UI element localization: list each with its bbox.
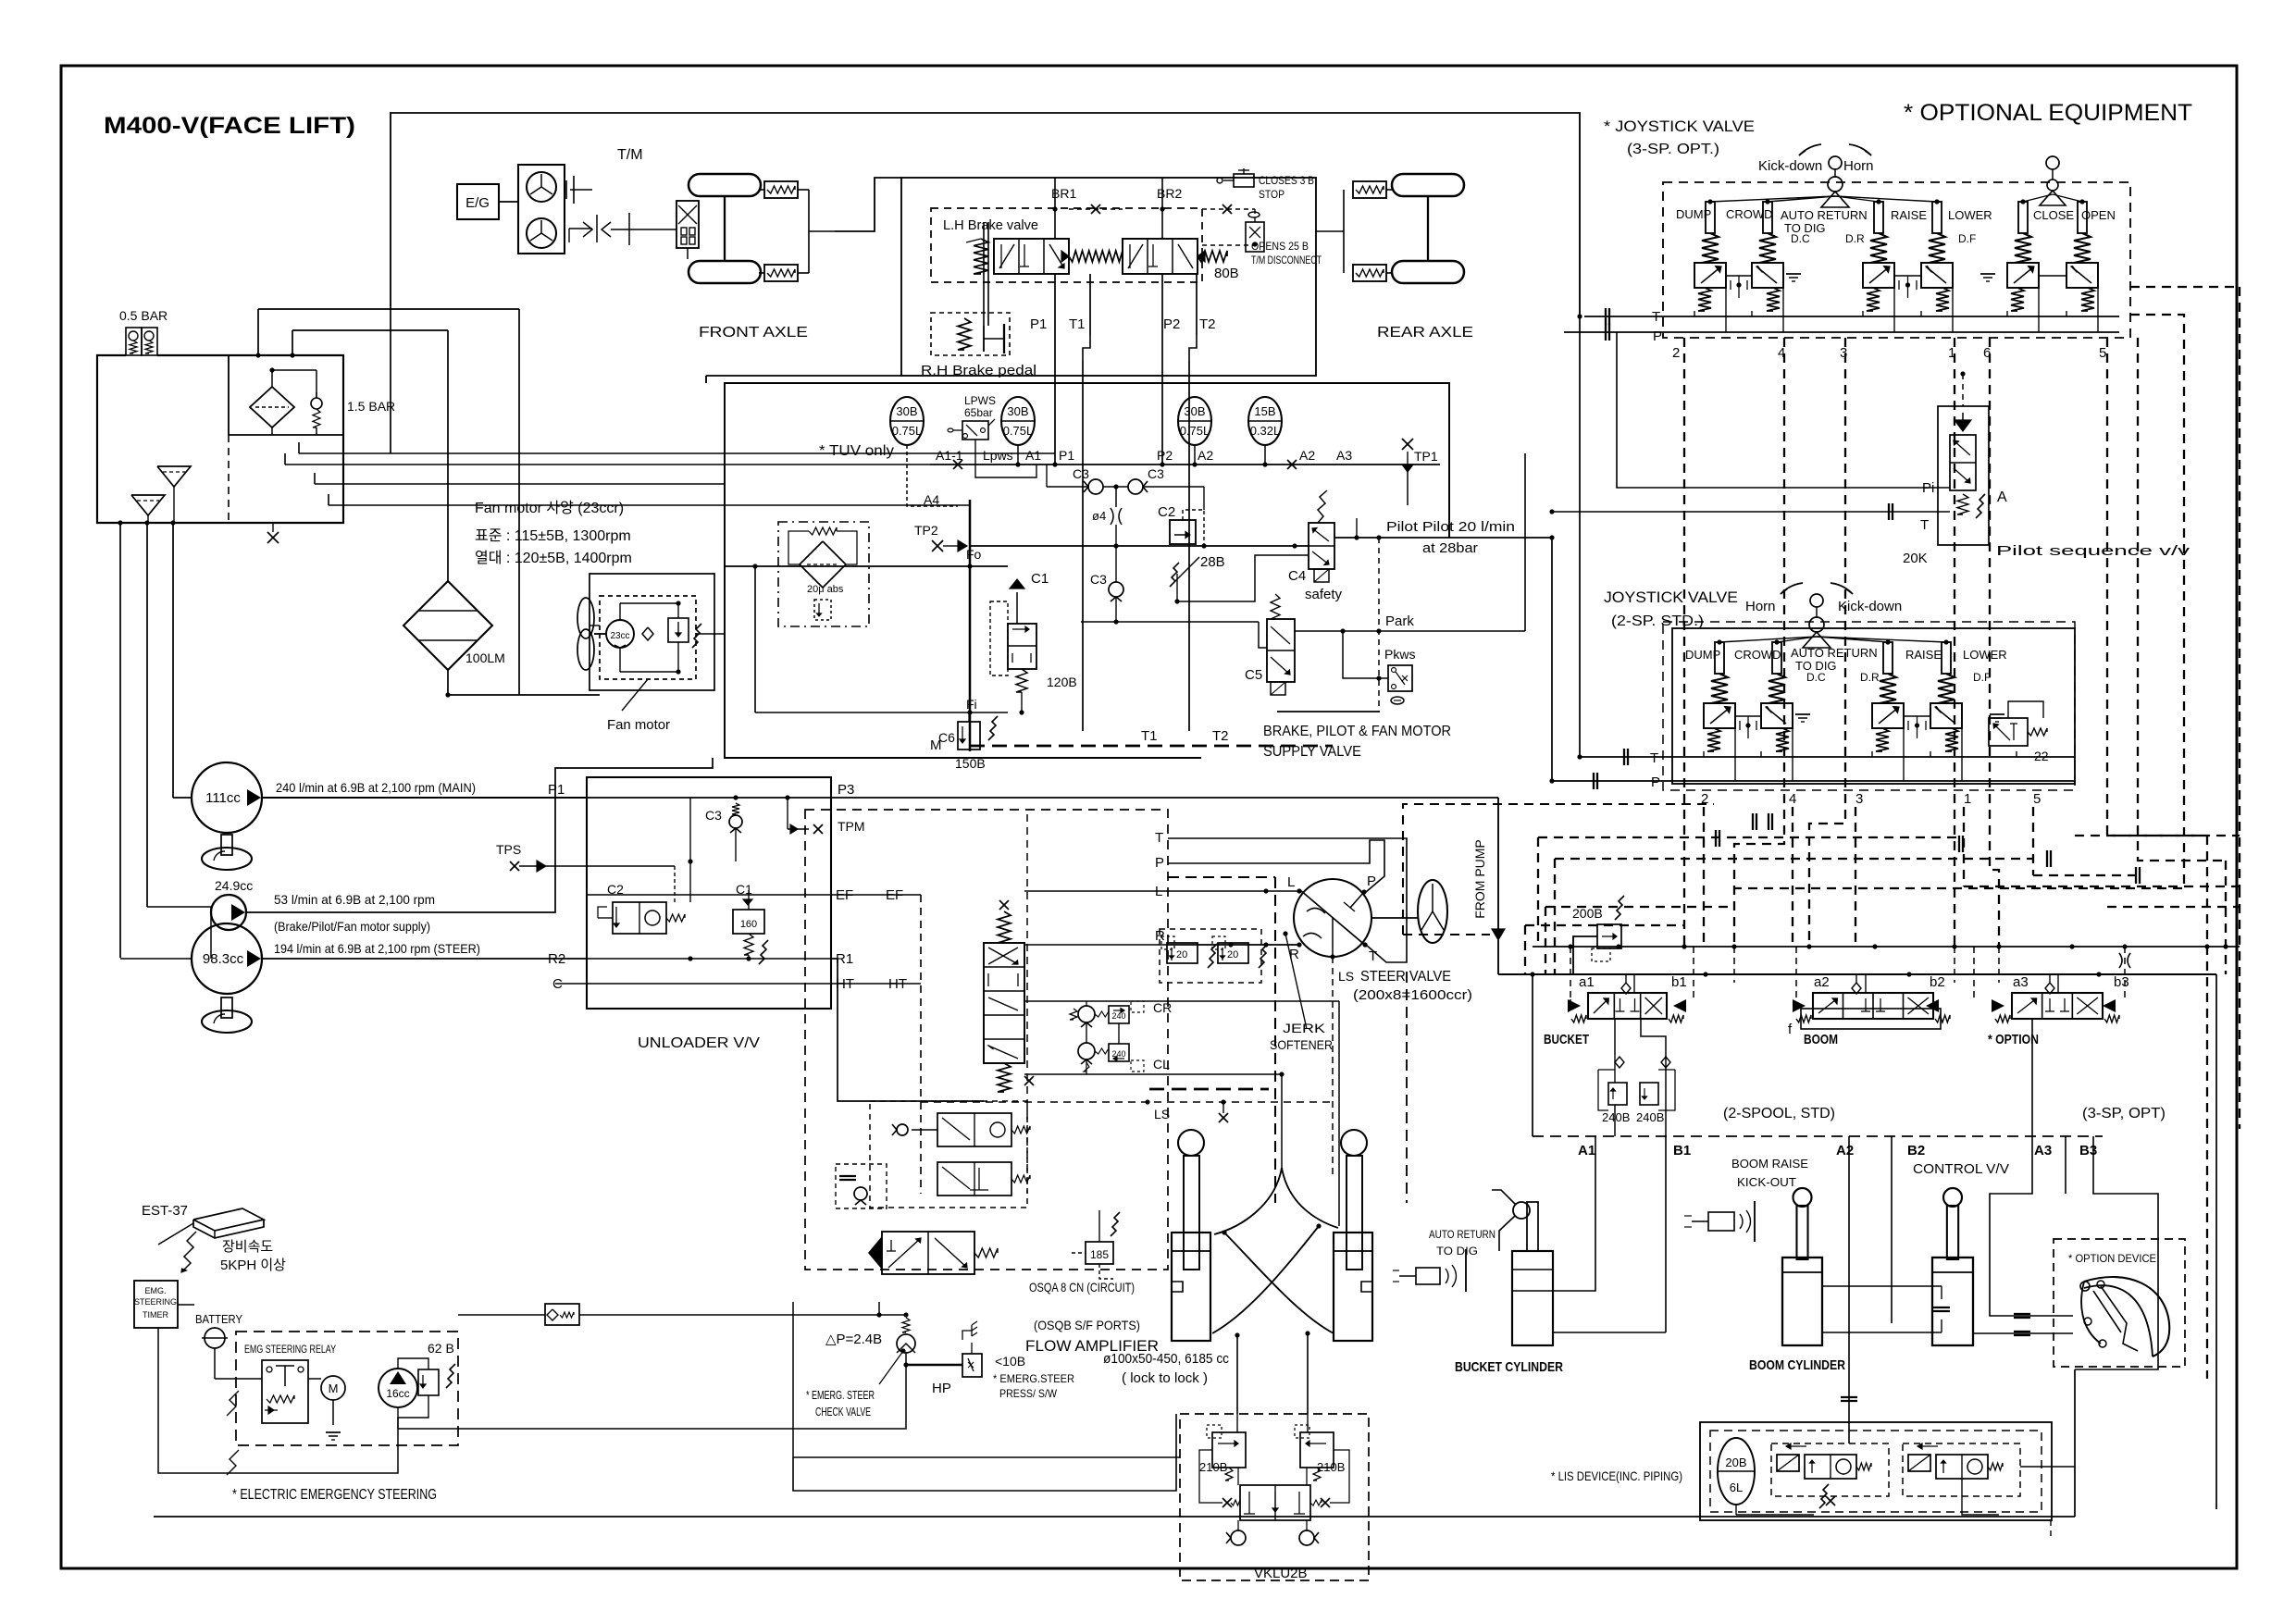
svg-text:a1: a1 <box>1579 974 1595 990</box>
240B pair under bucket <box>1614 1019 1616 1055</box>
fan motor block <box>600 596 696 679</box>
2-SP fan-out <box>1719 637 1817 642</box>
svg-text:VKLU2B: VKLU2B <box>1254 1566 1308 1581</box>
steering wheel <box>1418 880 1447 943</box>
brake circuit box <box>901 178 1316 376</box>
2-SP drop dashed <box>1703 807 1705 947</box>
185 relief <box>1086 1242 1113 1264</box>
pilot drops to spool caps <box>1570 947 1571 999</box>
HP return loop <box>398 1376 906 1429</box>
svg-text:CROWD: CROWD <box>1734 648 1781 662</box>
svg-text:111cc: 111cc <box>205 790 241 806</box>
svg-text:CL: CL <box>1153 1057 1170 1072</box>
240 check relief pair CR <box>1078 1006 1095 1022</box>
svg-text:B1: B1 <box>1673 1143 1691 1158</box>
joystick 3-SP handle <box>1829 156 1842 169</box>
svg-text:Kick-down: Kick-down <box>1838 599 1902 614</box>
svg-text:24.9cc: 24.9cc <box>215 878 253 893</box>
svg-text:240: 240 <box>1111 1011 1125 1021</box>
svg-text:C5: C5 <box>1245 667 1262 683</box>
svg-text:C3: C3 <box>1148 466 1164 481</box>
svg-text:6L: 6L <box>1730 1481 1743 1494</box>
svg-text:P1: P1 <box>548 782 565 798</box>
bypass check 1.5BAR <box>311 398 322 409</box>
svg-text:185: 185 <box>1090 1248 1109 1261</box>
heavy dash CL below <box>1149 1088 1269 1091</box>
steer LS dashed down <box>1332 957 1334 1175</box>
closes 3B stop switch <box>1234 174 1254 187</box>
LIS solenoid valve 2 <box>1903 1443 2020 1496</box>
pilot 20lmin line <box>1334 537 1552 539</box>
front axle <box>689 174 761 196</box>
svg-text:RAISE: RAISE <box>1891 208 1927 222</box>
svg-text:Pkws: Pkws <box>1384 647 1415 662</box>
motor M <box>321 1376 345 1400</box>
svg-text:D.R: D.R <box>1860 671 1880 684</box>
svg-text:5: 5 <box>2099 345 2106 361</box>
A2 B2 drop caps <box>1841 1396 1857 1398</box>
solenoid 3way valve flow amp <box>868 1236 882 1270</box>
svg-text:LPWS: LPWS <box>964 394 996 407</box>
svg-text:120B: 120B <box>1047 675 1077 689</box>
jerk softener callout <box>1285 934 1307 1029</box>
LIS device box <box>1700 1422 2052 1520</box>
pump 98.3cc steer <box>192 923 262 994</box>
svg-text:* OPTIONAL EQUIPMENT: * OPTIONAL EQUIPMENT <box>1904 100 2192 126</box>
svg-text:240B: 240B <box>1602 1110 1630 1124</box>
svg-text:safety: safety <box>1305 587 1343 602</box>
emerg steer check valve inline <box>545 1304 579 1325</box>
flow amp left EF dashed <box>920 895 922 1194</box>
joystick 3-SP dashed box <box>1663 182 2130 338</box>
svg-text:BUCKET CYLINDER: BUCKET CYLINDER <box>1455 1359 1563 1375</box>
svg-text:* TUV only: * TUV only <box>819 443 894 459</box>
svg-text:(Brake/Pilot/Fan motor supply): (Brake/Pilot/Fan motor supply) <box>274 919 430 934</box>
svg-text:at 28bar: at 28bar <box>1422 540 1478 556</box>
flow amp main spool <box>984 943 1024 1063</box>
svg-text:Horn: Horn <box>1745 599 1776 614</box>
pilot dashed vertical <box>1378 538 1380 712</box>
brake valve port dashes <box>1202 244 1254 246</box>
emerg steer line <box>458 1314 545 1316</box>
svg-text:AUTO RETURN: AUTO RETURN <box>1429 1228 1496 1241</box>
pump 16cc <box>379 1369 417 1407</box>
flow amp feeds verticals <box>792 1302 794 1457</box>
svg-text:TPM: TPM <box>838 819 865 834</box>
svg-text:P: P <box>1155 855 1164 871</box>
svg-text:△P=2.4B: △P=2.4B <box>825 1332 882 1347</box>
svg-text:T/M DISCONNECT: T/M DISCONNECT <box>1251 254 1322 266</box>
flow amp internal port lines <box>1024 890 1168 892</box>
VKLU2B spools <box>1240 1485 1310 1520</box>
opens 25B T/M disconnect valve <box>1248 212 1260 217</box>
svg-text:23cc: 23cc <box>610 631 629 641</box>
240 pair bus <box>1086 1022 1087 1043</box>
svg-text:R.H Brake pedal: R.H Brake pedal <box>921 363 1036 378</box>
svg-text:30B: 30B <box>1184 404 1205 418</box>
svg-text:80B: 80B <box>1214 266 1239 281</box>
240 check relief pair CL <box>1078 1043 1095 1059</box>
wire front axle to brake valve <box>835 178 901 231</box>
crossed hoses <box>1214 1168 1282 1234</box>
svg-text:T2: T2 <box>1199 316 1216 332</box>
svg-text:28B: 28B <box>1200 554 1225 570</box>
Fo line <box>725 565 1008 567</box>
svg-text:(3-SP, OPT): (3-SP, OPT) <box>2082 1106 2166 1121</box>
svg-text:P: P <box>1651 774 1660 790</box>
supply bottom right segment <box>1277 711 1380 712</box>
sensor zigzag arrow <box>181 1232 196 1272</box>
unloader internal verticals <box>689 798 691 902</box>
svg-text:A4: A4 <box>924 492 939 507</box>
TP1 test point <box>1402 465 1413 472</box>
supply left vertical <box>969 500 972 751</box>
svg-text:D.C: D.C <box>1806 671 1826 684</box>
svg-text:20: 20 <box>1176 949 1187 960</box>
svg-text:AUTO RETURN: AUTO RETURN <box>1791 646 1878 660</box>
4WD disconnect box <box>676 201 699 248</box>
boom cylinder <box>1782 1258 1822 1345</box>
svg-text:TP2: TP2 <box>914 523 938 538</box>
svg-text:A3: A3 <box>2034 1143 2052 1158</box>
3-SP valve units <box>1706 202 1715 233</box>
svg-text:Park: Park <box>1385 613 1414 629</box>
svg-text:D.F: D.F <box>1973 671 1991 684</box>
svg-text:200B: 200B <box>1572 906 1603 921</box>
svg-text:P: P <box>1653 328 1662 344</box>
grapple icon <box>2084 1277 2169 1357</box>
svg-text:CLOSES 3 B: CLOSES 3 B <box>1259 174 1314 187</box>
24.9 feed to supply valve <box>246 758 713 912</box>
A3 B3 wires <box>2065 1136 2066 1194</box>
svg-text:AUTO RETURN: AUTO RETURN <box>1781 208 1868 222</box>
svg-text:CLOSE: CLOSE <box>2033 208 2074 222</box>
svg-text:EST-37: EST-37 <box>142 1203 188 1219</box>
svg-text:LOWER: LOWER <box>1963 648 2007 662</box>
nest horizontals <box>1525 924 1684 926</box>
svg-text:210B: 210B <box>1199 1460 1227 1474</box>
svg-text:(OSQB S/F PORTS): (OSQB S/F PORTS) <box>1034 1318 1140 1332</box>
svg-text:(3-SP. OPT.): (3-SP. OPT.) <box>1627 142 1719 157</box>
svg-text:TPS: TPS <box>496 842 521 857</box>
flow amplifier box <box>805 810 1168 1270</box>
svg-text:160: 160 <box>740 919 757 930</box>
P3 to from-pump line <box>831 797 1498 799</box>
svg-text:C3: C3 <box>705 808 722 823</box>
unloader C3 check <box>732 803 739 814</box>
svg-text:A1: A1 <box>1025 448 1041 463</box>
svg-text:* LIS DEVICE(INC. PIPING): * LIS DEVICE(INC. PIPING) <box>1551 1468 1682 1483</box>
svg-text:( lock to lock ): ( lock to lock ) <box>1122 1370 1208 1386</box>
svg-text:C3: C3 <box>1073 466 1089 481</box>
svg-text:b1: b1 <box>1671 974 1687 990</box>
svg-text:CONTROL V/V: CONTROL V/V <box>1913 1161 2009 1177</box>
svg-text:T2: T2 <box>1212 728 1229 744</box>
R.H Brake pedal <box>931 313 1010 355</box>
joystick 3-SP small handle right <box>2046 156 2059 169</box>
svg-text:HP: HP <box>932 1381 951 1396</box>
callout emerg steer <box>879 1351 903 1384</box>
svg-text:REAR AXLE: REAR AXLE <box>1377 325 1473 341</box>
svg-text:a3: a3 <box>2013 974 2029 990</box>
svg-text:* JOYSTICK VALVE: * JOYSTICK VALVE <box>1604 118 1755 135</box>
pilot dashed nest from 3-SP <box>1683 338 1685 947</box>
brake pilot fan supply valve box <box>725 383 1449 758</box>
wire 100LM down <box>390 306 391 453</box>
suction strainers <box>131 495 165 515</box>
svg-text:22: 22 <box>2034 749 2049 763</box>
VKLU2B checks <box>1231 1530 1246 1545</box>
svg-text:T: T <box>1920 517 1929 533</box>
210B relief pair <box>1212 1432 1246 1468</box>
steer valve circle <box>1294 879 1371 957</box>
svg-text:P1: P1 <box>1030 316 1047 332</box>
svg-text:P2: P2 <box>1157 448 1173 463</box>
svg-text:65bar: 65bar <box>964 406 993 419</box>
svg-text:LOWER: LOWER <box>1948 208 1992 222</box>
fan motor 23cc <box>577 598 594 638</box>
2-SP drop wires <box>1703 751 1705 757</box>
svg-text:100LM: 100LM <box>465 650 505 665</box>
svg-text:0.5 BAR: 0.5 BAR <box>119 308 168 323</box>
steer feed down to flow amp <box>831 959 984 1101</box>
pilot nest capacitors <box>1752 813 1754 830</box>
svg-text:BOOM RAISE: BOOM RAISE <box>1731 1157 1808 1171</box>
unloader V/V box <box>587 777 831 1009</box>
unloader TPM port <box>787 798 788 829</box>
cylinder wires <box>1595 1136 1596 1221</box>
svg-text:C2: C2 <box>1158 504 1175 520</box>
accumulator 30B 1 <box>890 397 924 445</box>
svg-text:20: 20 <box>1227 949 1238 960</box>
svg-text:JOYSTICK VALVE: JOYSTICK VALVE <box>1604 588 1738 606</box>
Pi line <box>1617 332 1950 488</box>
steering cylinder left <box>1172 1233 1210 1341</box>
pilot sequence valve <box>1938 406 1989 545</box>
brake valve left spring + pedal <box>974 239 988 274</box>
svg-text:BOOM: BOOM <box>1804 1032 1838 1047</box>
svg-text:* OPTION DEVICE: * OPTION DEVICE <box>2068 1252 2156 1265</box>
svg-text:A2: A2 <box>1299 448 1315 463</box>
long vertical T return right <box>1579 316 1581 757</box>
option feed lines <box>1990 1019 2073 1316</box>
svg-text:1.5 BAR: 1.5 BAR <box>347 399 395 414</box>
option cylinder lever <box>1932 1258 1973 1345</box>
suction pipes <box>119 523 121 958</box>
svg-text:20μ abs: 20μ abs <box>807 584 844 595</box>
VKLU2B block <box>1180 1414 1369 1580</box>
svg-text:Fo: Fo <box>966 547 982 562</box>
svg-text:표준 : 115±5B, 1300rpm: 표준 : 115±5B, 1300rpm <box>475 528 631 544</box>
svg-text:240 l/min at 6.9B at 2,100 rpm: 240 l/min at 6.9B at 2,100 rpm (MAIN) <box>276 780 476 795</box>
svg-text:P1: P1 <box>1059 448 1074 463</box>
svg-text:EMG.: EMG. <box>144 1286 166 1295</box>
svg-text:210B: 210B <box>1317 1460 1345 1474</box>
accumulator 15B <box>1248 397 1282 445</box>
svg-text:a2: a2 <box>1814 974 1830 990</box>
option device box <box>2054 1239 2185 1367</box>
svg-text:4: 4 <box>1789 791 1796 807</box>
svg-text:* OPTION: * OPTION <box>1988 1032 2039 1047</box>
svg-text:Horn: Horn <box>1843 158 1874 174</box>
svg-text:L.H Brake valve: L.H Brake valve <box>943 217 1038 233</box>
EMS wires <box>214 1348 216 1379</box>
svg-text:장비속도: 장비속도 <box>222 1239 273 1255</box>
tank drain X <box>272 523 274 532</box>
svg-text:LS: LS <box>1154 1107 1170 1121</box>
svg-text:T: T <box>1650 750 1658 766</box>
svg-text:BOOM CYLINDER: BOOM CYLINDER <box>1749 1357 1845 1373</box>
svg-text:A1: A1 <box>1578 1143 1595 1158</box>
svg-text:20K: 20K <box>1903 551 1928 566</box>
hydraulic tank <box>97 355 343 523</box>
EF HT lines to flow amp <box>831 894 921 896</box>
control pilot dashed box edge <box>1403 804 1714 935</box>
svg-text:BUCKET: BUCKET <box>1544 1032 1589 1047</box>
supply port bus <box>930 464 1440 465</box>
fan motor callout <box>622 679 648 711</box>
long vertical pilot feed <box>1551 538 1553 781</box>
svg-text:JERK: JERK <box>1283 1021 1326 1035</box>
pedal linkage <box>983 222 985 326</box>
svg-text:* EMERG. STEER: * EMERG. STEER <box>806 1388 875 1402</box>
EMG steering timer box <box>134 1281 178 1328</box>
nest dash near steer <box>1168 876 1275 878</box>
svg-text:E/G: E/G <box>465 195 490 211</box>
svg-text:Pilot sequence v/v: Pilot sequence v/v <box>1996 543 2191 559</box>
LIS wires <box>1962 1479 1999 1515</box>
svg-text:0.75L: 0.75L <box>892 424 923 438</box>
svg-text:Lpws: Lpws <box>983 448 1013 463</box>
svg-text:CHECK VALVE: CHECK VALVE <box>815 1405 871 1419</box>
svg-text:FRONT AXLE: FRONT AXLE <box>699 325 808 341</box>
bus lines tank to supply manifold <box>298 442 300 453</box>
svg-text:OPENS 25 B: OPENS 25 B <box>1251 240 1309 253</box>
16cc outlet <box>397 1418 399 1429</box>
svg-text:UNLOADER V/V: UNLOADER V/V <box>638 1035 760 1051</box>
svg-text:P3: P3 <box>838 782 854 798</box>
svg-text:ø100x50-450, 6185 cc: ø100x50-450, 6185 cc <box>1103 1351 1229 1367</box>
svg-text:0.32L: 0.32L <box>1250 424 1281 438</box>
svg-text:PRESS/ S/W: PRESS/ S/W <box>999 1387 1058 1400</box>
unloader R2-R1 line <box>587 958 831 960</box>
svg-text:194 l/min at 6.9B at 2,100 rpm: 194 l/min at 6.9B at 2,100 rpm (STEER) <box>274 941 480 956</box>
steering cylinder right <box>1334 1233 1372 1341</box>
svg-text:D.F: D.F <box>1958 232 1976 245</box>
svg-text:(2-SP. STD.): (2-SP. STD.) <box>1611 613 1704 629</box>
svg-text:53 l/min at 6.9B at 2,100 rpm: 53 l/min at 6.9B at 2,100 rpm <box>274 892 435 907</box>
frame bottom lis <box>2050 1520 2052 1536</box>
10B switch <box>962 1354 982 1377</box>
svg-text:3: 3 <box>1855 791 1863 807</box>
svg-text:STEER VALVE: STEER VALVE <box>1360 969 1451 985</box>
joystick 2-SP box <box>1672 628 2075 784</box>
A1 B1 bus <box>1533 1135 2103 1137</box>
svg-text:62 B: 62 B <box>428 1341 454 1356</box>
svg-text:RAISE: RAISE <box>1905 648 1942 662</box>
rear axle <box>1392 174 1464 196</box>
cylinder feeds <box>1338 1001 1340 1226</box>
svg-text:R2: R2 <box>548 951 565 967</box>
svg-text:OSQA 8 CN (CIRCUIT): OSQA 8 CN (CIRCUIT) <box>1029 1280 1135 1295</box>
svg-text:STEERING: STEERING <box>134 1297 177 1307</box>
svg-text:A2: A2 <box>1836 1143 1854 1158</box>
unloader EF line <box>587 894 831 896</box>
steering cylinder drops <box>1236 1335 1238 1414</box>
svg-text:D.R: D.R <box>1845 232 1865 245</box>
T line to pilot seq <box>1552 511 1950 513</box>
extra nest dashed lines <box>1538 836 1964 838</box>
svg-text:0.75L: 0.75L <box>1003 424 1034 438</box>
svg-text:CR: CR <box>1153 1000 1172 1015</box>
3-SP fan-out lines <box>1710 196 1835 202</box>
VKLU2B wires <box>1237 1468 1239 1485</box>
svg-text:M400-V(FACE LIFT): M400-V(FACE LIFT) <box>104 113 355 139</box>
svg-text:98.3cc: 98.3cc <box>203 951 244 967</box>
bucket cylinder <box>1513 1202 1530 1219</box>
main pump 111cc <box>192 762 262 833</box>
svg-text:KICK-OUT: KICK-OUT <box>1737 1175 1796 1189</box>
orifice right <box>2119 953 2122 968</box>
main pressure line <box>1497 940 1499 974</box>
kickout solenoid <box>1708 1212 1734 1231</box>
3-SP unit drop wires <box>1694 311 1695 316</box>
HP port <box>905 1353 907 1376</box>
svg-text:TIMER: TIMER <box>143 1310 168 1319</box>
CR CL lines <box>1024 1000 1339 1002</box>
unloader C-HT line <box>555 983 831 985</box>
C3 check vertical <box>1109 582 1123 597</box>
svg-text:* ELECTRIC EMERGENCY STEERIN: * ELECTRIC EMERGENCY STEERING <box>232 1487 437 1503</box>
svg-text:5KPH 이상: 5KPH 이상 <box>220 1258 286 1273</box>
accumulator 30B 3 <box>1178 397 1211 445</box>
C5 park valve <box>1267 619 1295 682</box>
svg-text:15B: 15B <box>1254 404 1275 418</box>
svg-text:D.C: D.C <box>1791 232 1810 245</box>
svg-text:A3: A3 <box>1336 448 1352 463</box>
svg-text:C1: C1 <box>736 882 752 897</box>
svg-text:1: 1 <box>1964 791 1971 807</box>
svg-text:L: L <box>1287 874 1295 890</box>
unloader P1-P3 line <box>587 797 831 799</box>
brake valve middle spring <box>1069 251 1123 262</box>
svg-text:BR2: BR2 <box>1157 186 1182 201</box>
svg-text:30B: 30B <box>896 404 917 418</box>
svg-text:(2-SPOOL, STD): (2-SPOOL, STD) <box>1723 1106 1835 1121</box>
return filter 1.5BAR <box>229 434 343 436</box>
clutch marks <box>565 180 567 199</box>
pilot seq feed <box>1962 374 1964 406</box>
A4 dashed TUV line <box>907 465 958 506</box>
wire tank return top <box>391 113 1580 316</box>
brake valve spool 1 <box>994 239 1069 274</box>
svg-text:B3: B3 <box>2079 1143 2097 1158</box>
accumulator 30B 2 <box>1001 397 1035 445</box>
svg-text:M: M <box>329 1381 339 1395</box>
svg-text:Pilot Pilot 20 l/min: Pilot Pilot 20 l/min <box>1386 519 1515 535</box>
engine E/G <box>457 184 499 219</box>
svg-text:STOP: STOP <box>1259 188 1285 201</box>
svg-text:B2: B2 <box>1907 1143 1925 1158</box>
svg-text:FROM PUMP: FROM PUMP <box>1472 839 1487 919</box>
svg-text:Fi: Fi <box>966 697 977 712</box>
svg-text:BRAKE, PILOT & FAN MOTOR: BRAKE, PILOT & FAN MOTOR <box>1263 724 1451 739</box>
svg-text:16cc: 16cc <box>386 1387 409 1400</box>
EMG steering relay box <box>236 1332 458 1445</box>
EMS bottom wire <box>158 1328 398 1473</box>
filter 20u abs block <box>778 522 869 626</box>
fan supply box <box>590 574 714 690</box>
